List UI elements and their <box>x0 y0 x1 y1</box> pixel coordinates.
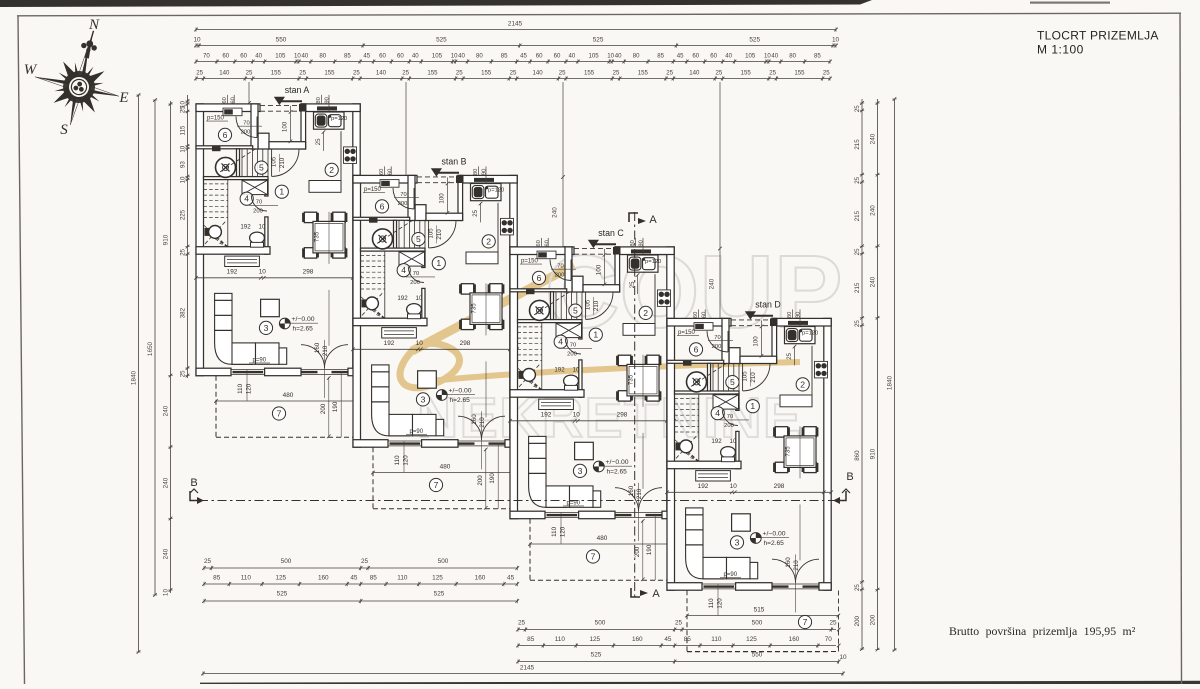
unit B hall door arc <box>408 267 424 283</box>
svg-text:200: 200 <box>477 475 484 486</box>
unit A terrace dim 190 <box>340 371 342 437</box>
svg-text:90: 90 <box>325 97 331 103</box>
svg-text:1: 1 <box>436 258 441 268</box>
unit A wall under stairs row <box>204 177 269 180</box>
svg-text:h=2.65: h=2.65 <box>293 326 314 333</box>
unit B terrace dim 110/120 <box>403 441 405 472</box>
unit B room number 7 <box>429 478 442 491</box>
unit A dining chairs <box>302 212 319 222</box>
svg-text:70: 70 <box>203 53 210 60</box>
svg-text:80: 80 <box>789 53 796 60</box>
unit D room number 3 <box>730 536 743 549</box>
svg-text:500: 500 <box>595 620 606 627</box>
svg-text:910: 910 <box>869 448 876 459</box>
svg-text:25: 25 <box>204 558 212 565</box>
svg-text:60: 60 <box>692 53 699 60</box>
svg-text:p=120: p=120 <box>488 188 504 194</box>
svg-text:210: 210 <box>793 560 800 571</box>
svg-text:210: 210 <box>479 417 486 428</box>
svg-text:500: 500 <box>752 620 763 627</box>
unit D hall left wall lower <box>736 431 739 468</box>
unit D living window sill <box>702 583 736 585</box>
bottom dims units A,B <box>204 567 517 569</box>
svg-text:100: 100 <box>282 121 289 132</box>
unit C room number 7 <box>586 550 599 563</box>
unit B hall left wall upper <box>422 251 425 267</box>
svg-text:200: 200 <box>567 352 577 358</box>
unit C winder fan <box>518 368 542 390</box>
svg-text:192: 192 <box>554 366 565 373</box>
svg-text:298: 298 <box>303 268 314 275</box>
unit A french door dim 160/210 <box>324 340 326 398</box>
unit D french door threshold <box>772 583 819 585</box>
svg-text:90: 90 <box>639 240 645 246</box>
svg-text:B: B <box>190 477 197 489</box>
svg-text:A: A <box>649 214 657 226</box>
svg-text:120: 120 <box>717 598 724 609</box>
svg-text:7: 7 <box>591 552 596 562</box>
unit A kitchen lower counter <box>309 181 341 193</box>
svg-text:40: 40 <box>255 53 262 60</box>
top dim row fine2 <box>196 78 830 80</box>
svg-text:5: 5 <box>573 306 578 316</box>
svg-text:+/−0.00: +/−0.00 <box>292 316 315 323</box>
unit A dining table <box>313 221 345 253</box>
right dim 240s <box>877 99 879 650</box>
unit C wall under wc row <box>510 390 584 398</box>
unit C porch step wall <box>572 276 583 292</box>
unit D terrace dim 480 <box>687 615 838 617</box>
unit C terrace dim 190 <box>654 514 656 580</box>
svg-text:10: 10 <box>607 53 614 60</box>
unit C shaft dim 80/90 <box>634 238 636 248</box>
svg-text:155: 155 <box>271 70 282 77</box>
unit B table dim line <box>485 283 487 335</box>
svg-text:25: 25 <box>473 209 479 216</box>
unit D wc basin <box>680 440 693 453</box>
svg-text:60: 60 <box>397 53 404 60</box>
unit B stairs upper treads <box>398 220 400 248</box>
unit C kitchen dim 25 <box>637 274 639 294</box>
unit B bath vent shaft <box>380 180 399 188</box>
unit B porch dashed edge <box>417 176 458 178</box>
section line A <box>634 212 636 597</box>
bottom dim 2145 <box>203 673 843 675</box>
extension line to unit A <box>248 82 250 104</box>
svg-text:155: 155 <box>324 70 335 77</box>
svg-text:120: 120 <box>403 455 410 466</box>
left dim 1650 <box>154 100 156 595</box>
svg-text:40: 40 <box>569 53 576 60</box>
svg-text:h=2.65: h=2.65 <box>607 469 628 476</box>
unit A kitchen dim 25 <box>323 131 325 151</box>
svg-text:25: 25 <box>559 70 566 77</box>
svg-text:515: 515 <box>754 607 765 614</box>
svg-text:85: 85 <box>501 53 508 60</box>
svg-text:25: 25 <box>179 106 186 113</box>
svg-text:p=150: p=150 <box>521 258 539 264</box>
svg-text:298: 298 <box>617 411 628 418</box>
svg-text:80: 80 <box>319 53 326 60</box>
unit A toilet <box>250 232 265 244</box>
unit D coffee table <box>732 514 751 531</box>
unit D toilet <box>721 447 736 459</box>
unit C top wall right <box>615 247 674 255</box>
unit C radiator <box>539 399 574 409</box>
svg-text:525: 525 <box>749 37 760 44</box>
svg-text:5: 5 <box>730 377 735 387</box>
unit C room number 1 <box>589 328 602 341</box>
unit C hall left wall lower <box>579 360 582 397</box>
page border right <box>1180 13 1182 684</box>
svg-text:10: 10 <box>179 145 186 152</box>
unit D room number 6 <box>689 343 702 356</box>
svg-text:4: 4 <box>558 337 563 347</box>
unit A shower room right wall <box>237 149 240 177</box>
svg-text:90: 90 <box>796 312 802 318</box>
svg-text:190: 190 <box>332 401 339 412</box>
svg-text:70: 70 <box>825 636 833 643</box>
unit D entry door arc 105/210 <box>743 364 770 391</box>
svg-text:4: 4 <box>401 265 406 275</box>
svg-text:25: 25 <box>823 70 830 77</box>
svg-text:105: 105 <box>271 156 278 167</box>
svg-text:10: 10 <box>259 223 266 230</box>
svg-text:70: 70 <box>256 200 262 206</box>
unit B shaft dim 80/90 <box>477 166 479 176</box>
svg-text:40: 40 <box>412 53 419 60</box>
svg-text:1840: 1840 <box>130 370 137 385</box>
svg-text:105: 105 <box>428 228 435 239</box>
unit D wall under wc row <box>667 461 741 469</box>
svg-text:6: 6 <box>223 130 228 140</box>
svg-text:215: 215 <box>854 282 861 293</box>
svg-text:190: 190 <box>646 544 653 555</box>
unit D porch dim 100 <box>761 320 763 356</box>
svg-text:298: 298 <box>774 483 785 490</box>
unit D stairs upper treads <box>712 363 714 391</box>
svg-text:25: 25 <box>829 620 837 627</box>
unit C hall door arc <box>565 338 581 354</box>
svg-text:25: 25 <box>769 70 776 77</box>
unit A bottom wall segs <box>196 368 231 376</box>
svg-text:160: 160 <box>789 636 800 643</box>
svg-text:110: 110 <box>555 636 566 643</box>
bottom dims units C,D <box>518 629 836 631</box>
svg-text:200: 200 <box>724 423 734 429</box>
svg-text:p=90: p=90 <box>567 500 581 506</box>
svg-text:10: 10 <box>573 366 580 373</box>
svg-text:6: 6 <box>380 201 385 211</box>
unit B washbasin <box>373 229 393 249</box>
svg-text:160: 160 <box>632 636 643 643</box>
unit C stairs upper treads <box>555 292 557 320</box>
unit B terrace dashed outline <box>372 447 374 509</box>
unit C washbasin <box>530 300 550 320</box>
svg-text:125: 125 <box>589 636 600 643</box>
svg-text:25: 25 <box>854 105 861 112</box>
svg-text:140: 140 <box>219 70 230 77</box>
unit A stairs lower treads <box>204 183 228 185</box>
svg-text:85: 85 <box>684 636 692 643</box>
unit B porch right wall <box>458 175 463 220</box>
unit B stairs lower treads <box>361 254 385 256</box>
unit D kitchen counter right <box>811 346 813 395</box>
svg-text:60: 60 <box>222 97 228 103</box>
svg-text:160: 160 <box>471 414 478 425</box>
unit D dining chairs <box>773 427 790 437</box>
svg-text:100: 100 <box>753 336 760 347</box>
unit D porch bottom wall <box>740 356 777 363</box>
unit C coffee table <box>575 442 594 459</box>
svg-text:110: 110 <box>394 455 401 465</box>
unit D wall under bath <box>667 360 724 363</box>
unit C room number 6 <box>532 271 545 284</box>
unit D room number 2 <box>796 378 809 391</box>
svg-text:p=120: p=120 <box>331 116 347 122</box>
svg-text:25: 25 <box>316 138 322 145</box>
svg-text:735: 735 <box>628 374 635 385</box>
svg-text:60: 60 <box>693 312 699 318</box>
section marker A bottom <box>631 588 640 597</box>
svg-text:5: 5 <box>416 234 421 244</box>
unit D party/right wall <box>824 318 831 590</box>
svg-text:910: 910 <box>162 234 169 245</box>
svg-text:+/−0.00: +/−0.00 <box>606 459 629 466</box>
extension line to unit B <box>405 82 407 182</box>
unit A terrace dim 200 <box>328 377 330 437</box>
left dim 910/240 <box>170 101 172 593</box>
unit A terrace dashed outline <box>215 376 217 438</box>
unit D terrace dashed right edge <box>838 591 840 652</box>
unit C french door dim 160/210 <box>638 483 640 541</box>
svg-text:115: 115 <box>179 125 186 135</box>
svg-text:7: 7 <box>434 480 439 490</box>
unit B coffee table <box>418 371 437 388</box>
svg-text:p=120: p=120 <box>645 259 661 265</box>
svg-text:E: E <box>118 90 128 106</box>
unit B toilet <box>407 304 422 316</box>
svg-text:10: 10 <box>573 411 581 418</box>
unit D winder fan <box>675 439 699 461</box>
unit B french door threshold <box>458 440 505 442</box>
unit C sofa <box>529 436 601 507</box>
svg-text:M 1:100: M 1:100 <box>1037 43 1084 57</box>
svg-text:N: N <box>88 17 100 33</box>
svg-text:240: 240 <box>709 278 716 289</box>
unit C terrace dim 110/120 <box>560 513 562 544</box>
unit A living window sill <box>231 369 265 371</box>
svg-text:25: 25 <box>675 620 683 627</box>
svg-text:60: 60 <box>240 53 247 60</box>
unit D room number 5 <box>726 376 739 389</box>
unit C room number 4 <box>554 335 567 348</box>
top dim row 2145 <box>196 29 836 31</box>
unit B left outer wall <box>353 175 361 447</box>
svg-text:200: 200 <box>398 201 408 207</box>
svg-text:200: 200 <box>854 615 861 626</box>
unit A dim row 192 10 298 <box>196 277 360 279</box>
svg-text:1: 1 <box>279 187 284 197</box>
unit D porch right wall <box>772 318 777 363</box>
svg-text:45: 45 <box>350 575 358 582</box>
unit C dining chairs <box>616 355 633 365</box>
svg-text:500: 500 <box>281 558 292 565</box>
svg-text:192: 192 <box>711 438 722 445</box>
svg-text:525: 525 <box>593 37 604 44</box>
unit B stove burners <box>501 218 514 235</box>
svg-text:60: 60 <box>710 53 717 60</box>
svg-text:210: 210 <box>436 229 443 240</box>
svg-text:210: 210 <box>279 157 286 168</box>
unit B kitchen sink <box>471 184 502 201</box>
svg-text:125: 125 <box>746 636 757 643</box>
svg-text:45: 45 <box>363 53 370 60</box>
svg-text:550: 550 <box>752 652 763 659</box>
svg-text:stan B: stan B <box>442 156 467 166</box>
unit C bath right wall <box>565 247 572 292</box>
unit D porch dashed edge <box>731 319 772 321</box>
extension line to unit D + step dim 240 <box>719 82 721 320</box>
svg-text:6: 6 <box>694 344 699 354</box>
svg-text:10: 10 <box>730 483 738 490</box>
svg-text:480: 480 <box>597 535 608 542</box>
unit A room number 3 <box>259 321 272 334</box>
unit B room number 5 <box>412 233 425 246</box>
svg-text:40: 40 <box>615 53 622 60</box>
svg-text:stan A: stan A <box>285 85 310 95</box>
unit B kitchen dim 25 <box>480 203 482 223</box>
unit B shower room right wall <box>394 220 397 248</box>
svg-text:155: 155 <box>584 70 595 77</box>
svg-text:225: 225 <box>179 209 186 220</box>
svg-text:10: 10 <box>416 340 424 347</box>
svg-text:192: 192 <box>240 223 251 230</box>
svg-text:192: 192 <box>698 483 709 490</box>
unit A left outer wall <box>196 104 204 376</box>
svg-text:192: 192 <box>384 340 395 347</box>
unit D kitchen sink <box>785 327 816 344</box>
unit A table dim line <box>328 212 330 264</box>
unit D radiator <box>696 471 731 481</box>
svg-text:192: 192 <box>397 295 408 302</box>
svg-text:2: 2 <box>486 236 491 246</box>
unit A winder fan <box>204 225 228 247</box>
svg-text:stan D: stan D <box>755 299 780 309</box>
unit D wall under stairs row <box>675 391 740 394</box>
svg-text:90: 90 <box>482 169 488 175</box>
unit C entry door arc 105/210 <box>586 292 613 319</box>
svg-text:160: 160 <box>475 575 486 582</box>
svg-text:525: 525 <box>436 37 447 44</box>
svg-text:25: 25 <box>402 70 409 77</box>
svg-text:40: 40 <box>771 53 778 60</box>
unit B hall left wall lower <box>422 288 425 325</box>
scan dark edge bottom right <box>200 681 1200 684</box>
unit C dining table <box>627 364 659 396</box>
unit C toilet <box>564 375 579 387</box>
unit C stairs direction dash <box>534 291 571 315</box>
unit A washbasin <box>216 157 236 177</box>
unit A hall left wall upper <box>265 180 268 196</box>
unit D level marker <box>750 533 761 544</box>
unit A wall under bath <box>196 146 253 149</box>
svg-text:155: 155 <box>794 70 805 77</box>
unit B bottom wall segs <box>353 440 388 448</box>
svg-text:100: 100 <box>439 193 446 204</box>
svg-text:160: 160 <box>628 485 635 496</box>
unit C left outer wall <box>510 247 518 519</box>
unit A stairs upper treads <box>241 149 243 177</box>
svg-text:B: B <box>846 471 853 483</box>
svg-text:h=2.65: h=2.65 <box>450 397 471 404</box>
svg-text:110: 110 <box>551 526 558 536</box>
unit B winder fan <box>361 296 385 318</box>
svg-text:155: 155 <box>427 70 438 77</box>
svg-text:85: 85 <box>370 575 378 582</box>
svg-text:120: 120 <box>246 383 253 394</box>
unit C bath door arc <box>550 260 571 281</box>
unit A entry door arc 105/210 <box>272 149 299 176</box>
svg-text:60: 60 <box>388 169 394 175</box>
unit C porch bottom wall <box>583 285 620 292</box>
svg-text:2145: 2145 <box>520 665 535 672</box>
svg-text:200: 200 <box>712 344 722 350</box>
top dim row modules <box>196 45 836 47</box>
unit C stairs lower treads <box>518 326 542 328</box>
svg-text:525: 525 <box>434 591 445 598</box>
svg-text:25: 25 <box>666 70 673 77</box>
svg-text:105: 105 <box>742 371 749 382</box>
svg-text:p=150: p=150 <box>678 330 696 336</box>
svg-text:480: 480 <box>283 392 294 399</box>
unit D stairs direction dash <box>691 362 728 386</box>
unit C living window sill <box>545 512 579 514</box>
svg-text:500: 500 <box>438 558 449 565</box>
svg-text:240: 240 <box>162 405 169 416</box>
unit B entry door arc 105/210 <box>429 221 456 248</box>
svg-text:2145: 2145 <box>508 21 523 28</box>
unit C dim row 192 10 298 <box>510 420 674 422</box>
svg-text:70: 70 <box>557 263 563 269</box>
unit D table dim line <box>799 426 801 478</box>
svg-text:735: 735 <box>785 446 792 457</box>
svg-text:155: 155 <box>741 70 752 77</box>
svg-text:45: 45 <box>664 636 672 643</box>
unit D shaft dim 60/60 <box>697 309 699 319</box>
svg-text:25: 25 <box>196 70 203 77</box>
svg-text:160: 160 <box>785 557 792 568</box>
svg-text:1: 1 <box>593 330 598 340</box>
svg-text:10: 10 <box>294 53 301 60</box>
svg-text:10: 10 <box>179 176 186 183</box>
svg-text:110: 110 <box>397 575 408 582</box>
svg-text:110: 110 <box>237 383 244 393</box>
compass rose <box>26 20 132 134</box>
unit A room number 6 <box>218 128 231 141</box>
unit B terrace dim 190 <box>497 442 499 508</box>
unit A bath door arc <box>236 117 257 138</box>
unit D french door dim 160/210 <box>795 554 797 612</box>
unit C french door arcs <box>615 488 639 512</box>
svg-text:105: 105 <box>589 53 600 60</box>
unit B room number 2 <box>482 235 495 248</box>
svg-text:70: 70 <box>413 271 419 277</box>
unit A hall left wall lower <box>265 217 268 254</box>
unit B top wall left <box>353 175 417 183</box>
unit A terrace dim 110/120 <box>246 370 248 401</box>
right dim 1840 <box>894 99 896 650</box>
